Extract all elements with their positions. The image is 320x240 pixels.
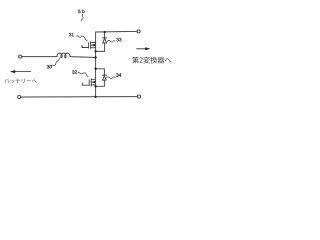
wire: mid rail, left segment from battery+ terminal to inductor [22, 56, 56, 58]
junction dot: diode 34 cathode at column [94, 68, 96, 70]
wire: top rail to output terminal [96, 30, 138, 33]
arrow shaft: to battery [15, 71, 31, 73]
label 33 [116, 38, 121, 41]
terminal circle: battery negative (left bottom) [18, 95, 21, 98]
leader squiggle from label 30 to inductor [51, 58, 59, 66]
arrowhead: to battery (left) [10, 70, 15, 73]
diode 34 triangle [103, 76, 107, 81]
diode 33 cathode lead [104, 32, 106, 38]
mosfet 31 body stub [91, 44, 96, 46]
mosfet 32 gate lead [83, 83, 89, 85]
label 5 [78, 10, 80, 13]
leader squiggle from label 5b [81, 14, 83, 21]
label 30 [47, 65, 52, 68]
junction dot: column at bottom rail [94, 96, 96, 98]
inductor 30 coil [56, 53, 70, 58]
wire: bottom rail [21, 96, 138, 98]
mosfet 31 channel bar [90, 42, 92, 49]
mosfet 31 drain stub [91, 41, 96, 43]
diode 34 anode lead with jog to column [96, 80, 105, 86]
junction dot: diode 33 anode at column [94, 50, 96, 52]
diode 34 cathode lead with jog from column [96, 69, 105, 75]
leader squiggle from label 34 to diode 34 [106, 77, 115, 79]
text 第2変換器へ (to second converter) [132, 57, 171, 64]
mosfet 32 body arrow [92, 81, 95, 84]
diode 33 cathode bar [103, 37, 107, 39]
mosfet 32 channel bar [90, 79, 92, 86]
mosfet 32 gate bar [88, 80, 90, 86]
label 34 [116, 73, 121, 76]
mosfet 31 gate lead [82, 45, 88, 47]
label b [83, 10, 85, 13]
diode 33 triangle [103, 38, 107, 43]
junction dot: diode 34 anode at column [94, 85, 96, 87]
leader squiggle from label 33 to diode 33 [107, 40, 115, 42]
mosfet 32 body stub [91, 81, 95, 83]
wire: mid rail, right segment from inductor to switching node [70, 56, 96, 59]
terminal circle: output negative (right bottom) [137, 95, 140, 98]
junction dot: diode 33 top at rail [103, 31, 105, 33]
label 32 [72, 70, 77, 73]
diode 34 cathode bar [102, 74, 106, 76]
mosfet 31 source stub [91, 47, 96, 49]
wire: main vertical column (drain of 31 down to source of 32) [95, 32, 97, 97]
terminal circle: battery positive (left middle) [19, 55, 22, 58]
mosfet 32 source stub [91, 84, 95, 86]
terminal circle: output positive (right top) [137, 30, 140, 33]
mosfet 32 drain stub [91, 78, 95, 80]
mosfet 31 gate bar [88, 43, 90, 48]
arrow shaft: to second converter [137, 48, 146, 50]
mosfet 31 body arrow [92, 44, 95, 47]
label 31 [69, 33, 74, 36]
arrowhead: to second converter (right) [145, 47, 150, 50]
leader squiggle from label 32 to gate of 32 [78, 72, 88, 76]
diode 33 anode lead with jog to column [96, 43, 105, 51]
leader squiggle from label 31 to gate of 31 [76, 36, 87, 41]
text バッテリーへ (to battery) [5, 78, 37, 83]
junction dot: mid rail at column [94, 56, 96, 58]
